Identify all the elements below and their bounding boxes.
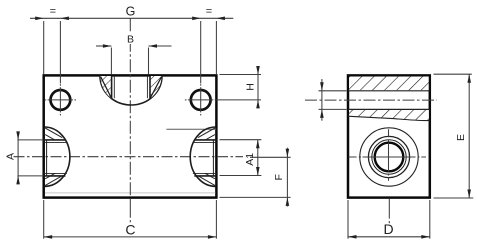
svg-text:B: B xyxy=(127,33,134,45)
left port thread lines xyxy=(44,140,67,176)
side view hatch band below channel with break line xyxy=(348,110,430,121)
mounting hole left xyxy=(45,84,76,115)
svg-text:H: H xyxy=(244,83,256,91)
right port countersink arc xyxy=(190,127,215,186)
dimension E xyxy=(434,74,474,198)
horizontal main centerline xyxy=(14,156,244,158)
top port cone line left xyxy=(101,77,112,99)
top port thread wall right xyxy=(147,76,150,100)
svg-text:=: = xyxy=(206,6,212,18)
side view hatch band top xyxy=(349,77,429,91)
left port hatch top wedge xyxy=(45,128,62,140)
pilot depth line right port xyxy=(166,128,216,130)
svg-text:E: E xyxy=(455,134,467,141)
dimension A xyxy=(4,131,43,184)
dimension B xyxy=(96,33,172,74)
top port countersink arc xyxy=(100,76,162,105)
left port countersink arc xyxy=(44,127,69,186)
channel diameter dimension xyxy=(319,79,347,121)
dimension H xyxy=(216,66,261,108)
side port bore circle xyxy=(375,143,404,172)
side port counterbore circle xyxy=(368,136,409,177)
svg-text:F: F xyxy=(273,174,285,180)
side view channel lines xyxy=(348,91,430,110)
mounting hole right xyxy=(185,84,216,115)
dimension F xyxy=(220,148,291,207)
svg-text:=: = xyxy=(50,6,56,18)
dimension A1 xyxy=(220,140,262,176)
left port hatch bottom wedge xyxy=(45,173,62,185)
right port hatch bottom wedge xyxy=(198,173,215,185)
dimension C xyxy=(44,200,217,239)
svg-text:A: A xyxy=(4,153,16,160)
top port thread wall left xyxy=(112,76,115,100)
top port cone line right xyxy=(150,77,162,99)
faint bottom step line xyxy=(45,192,215,194)
body outline front view xyxy=(44,75,217,197)
top port hatch left wedge xyxy=(100,76,111,99)
side port thread circle xyxy=(372,140,406,174)
side view channel centerline xyxy=(305,99,437,101)
top port hatch right wedge xyxy=(150,76,162,99)
side port crosshair xyxy=(349,129,426,181)
vertical main centerline xyxy=(129,18,131,222)
svg-text:D: D xyxy=(383,221,393,237)
right port hatch top wedge xyxy=(198,128,215,140)
dimension G with equal flanks xyxy=(30,4,233,83)
dimension D xyxy=(348,199,430,239)
svg-text:G: G xyxy=(126,4,136,18)
svg-text:C: C xyxy=(125,221,135,237)
side port spotface circle xyxy=(360,128,418,186)
right port thread lines xyxy=(193,140,217,176)
svg-text:A1: A1 xyxy=(244,153,256,166)
body outline side view xyxy=(348,75,430,197)
